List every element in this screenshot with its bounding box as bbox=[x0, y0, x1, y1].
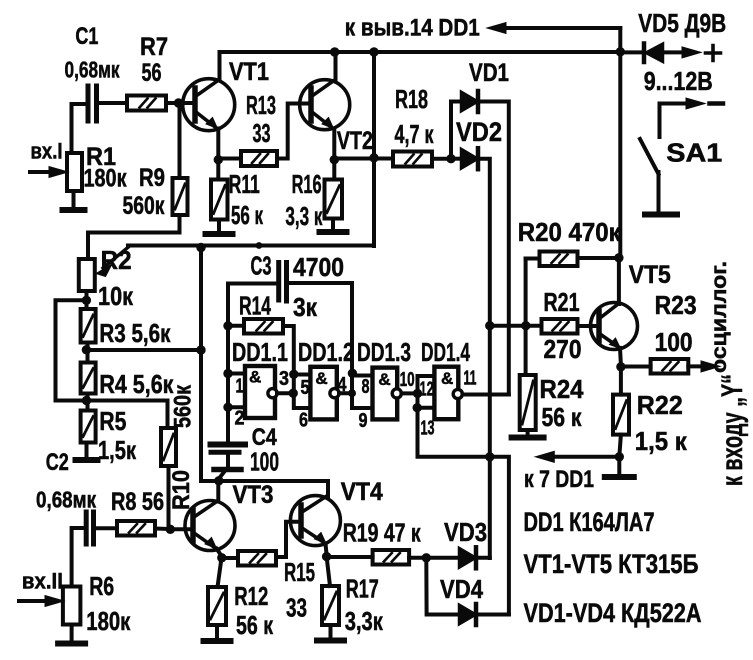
wire R21 to VT5 base bbox=[578, 324, 600, 328]
wire R7 to VT1 base bbox=[166, 101, 193, 105]
svg-text:VT2: VT2 bbox=[337, 127, 373, 155]
node R8/R10/base bbox=[166, 525, 175, 534]
wire collector link VT3-VT4 bbox=[219, 481, 328, 496]
wire R3-R4 bbox=[86, 343, 90, 363]
capacitor C3 bbox=[279, 263, 287, 302]
ground under R6 bbox=[70, 625, 74, 644]
wire VD4 cathode bbox=[476, 613, 509, 617]
wire R10 bottom bbox=[167, 466, 171, 529]
svg-text:9: 9 bbox=[359, 410, 368, 432]
resistor R6 bbox=[63, 587, 81, 625]
svg-text:R16: R16 bbox=[292, 169, 322, 199]
node R2-R3 junction bbox=[82, 296, 91, 305]
arrow к 7 DD1 bbox=[549, 455, 619, 459]
svg-text:4: 4 bbox=[338, 374, 348, 396]
wire rail down to R18 node bbox=[372, 52, 376, 246]
svg-text:VD1: VD1 bbox=[469, 59, 509, 87]
wire VT2 collector to rail bbox=[334, 52, 338, 79]
wire DD1.4 output pin11 to VD1 line bbox=[462, 393, 508, 397]
node VD2 anode bbox=[446, 154, 455, 163]
node x201 mid bbox=[196, 345, 205, 354]
wire pin13 stub bbox=[418, 406, 435, 410]
ground under R11 bbox=[217, 220, 221, 235]
svg-text:VT3: VT3 bbox=[233, 481, 274, 509]
svg-text:&: & bbox=[441, 369, 453, 388]
svg-text:R3 5,6к: R3 5,6к bbox=[99, 318, 171, 348]
svg-text:33: 33 bbox=[253, 118, 271, 148]
svg-text:R22: R22 bbox=[637, 390, 683, 420]
svg-text:R14: R14 bbox=[239, 291, 271, 321]
svg-text:R18: R18 bbox=[395, 84, 428, 114]
wire R15 to VT4 base bbox=[276, 522, 299, 557]
svg-text:VT5: VT5 bbox=[629, 261, 671, 289]
wire R14 right down bbox=[283, 326, 310, 408]
node VT1 emitter / R11 / R13 bbox=[214, 155, 223, 164]
svg-text:270: 270 bbox=[544, 334, 582, 364]
wire emitter to R17 bbox=[327, 557, 330, 586]
wire junction to R10 top bbox=[87, 401, 168, 429]
svg-text:R21: R21 bbox=[544, 287, 580, 317]
plus terminal bbox=[706, 46, 721, 61]
node DD1.1 pin2 bbox=[223, 403, 232, 412]
left bypass bracket bbox=[56, 300, 87, 400]
wire R18 to VD bracket bbox=[432, 157, 451, 161]
node R21/R24 bbox=[521, 321, 530, 330]
wire arrow corner to rail bbox=[618, 28, 622, 52]
wire node to R9 top bbox=[178, 103, 182, 178]
svg-text:10к: 10к bbox=[98, 281, 134, 311]
ground under R22 bbox=[617, 457, 621, 477]
logic gate DD1.2 bbox=[310, 367, 336, 420]
wire emitter to R12 bbox=[218, 558, 222, 587]
svg-text:R11: R11 bbox=[229, 169, 260, 199]
ground under R17 bbox=[329, 625, 333, 641]
resistor R23 bbox=[651, 359, 689, 374]
resistor R5 bbox=[81, 411, 96, 443]
node C3R fork top bbox=[348, 369, 357, 378]
resistor R7 bbox=[127, 96, 166, 111]
capacitor C4 bbox=[211, 442, 246, 448]
resistor R19 bbox=[373, 550, 410, 565]
node VD5 junction bbox=[616, 47, 625, 56]
wire junction to x201 bbox=[86, 348, 201, 352]
svg-text:R7: R7 bbox=[140, 33, 168, 61]
arrow к выв.14 DD1 bbox=[501, 26, 620, 30]
ground under R16 bbox=[331, 219, 335, 233]
wire C2 left to R6 bbox=[72, 528, 84, 587]
node R14 left bbox=[223, 321, 232, 330]
resistor R18 bbox=[393, 152, 432, 167]
wire R21 left long bbox=[490, 324, 542, 328]
resistor R3 bbox=[81, 309, 96, 343]
svg-text:56: 56 bbox=[142, 59, 162, 87]
input arrow вх.II bbox=[19, 599, 50, 603]
svg-text:&: & bbox=[378, 370, 390, 389]
resistor R4 bbox=[81, 363, 96, 394]
node pin5 junction bbox=[289, 370, 298, 379]
wire R8 to node bbox=[155, 527, 170, 532]
svg-text:DD1.3: DD1.3 bbox=[357, 337, 411, 367]
wire R13 to VT2 base bbox=[277, 104, 309, 159]
wire R4-R5 bbox=[86, 394, 90, 411]
svg-text:к входу „Y“: к входу „Y“ bbox=[716, 374, 749, 486]
resistor R16 bbox=[325, 180, 343, 219]
svg-text:5: 5 bbox=[301, 377, 310, 399]
resistor R21 bbox=[542, 319, 578, 334]
resistor R12 bbox=[208, 587, 226, 625]
svg-text:C3: C3 bbox=[251, 251, 272, 281]
logic gate DD1.4 bbox=[434, 367, 458, 420]
node rail x374 bbox=[369, 47, 378, 56]
svg-text:R17: R17 bbox=[346, 574, 379, 604]
wire VD2 cathode down bbox=[478, 159, 490, 558]
node R21/VD2line bbox=[485, 321, 494, 330]
svg-text:осциллог.: осциллог. bbox=[707, 261, 731, 373]
svg-text:R13: R13 bbox=[246, 90, 276, 120]
wire pin5 bbox=[294, 373, 311, 377]
node pin4 junction bbox=[348, 389, 356, 397]
svg-text:56 к: 56 к bbox=[236, 610, 274, 640]
svg-text:C1: C1 bbox=[75, 23, 98, 50]
node VD3 anode bbox=[422, 553, 431, 562]
svg-text:DD1.4: DD1.4 bbox=[421, 337, 470, 367]
wire to R14 bbox=[228, 324, 244, 328]
svg-text:R2: R2 bbox=[101, 245, 132, 275]
resistor R20 bbox=[540, 252, 578, 267]
node pin3 junction bbox=[289, 389, 298, 398]
svg-text:0,68мк: 0,68мк bbox=[65, 57, 120, 83]
wire VT1 emitter down bbox=[216, 129, 220, 158]
wire R20 left bbox=[526, 257, 540, 261]
resistor R17 bbox=[322, 586, 339, 625]
svg-text:R10: R10 bbox=[168, 470, 195, 510]
wire R20/R24 branch bbox=[524, 259, 528, 376]
wire VD2 anode bbox=[451, 157, 461, 161]
svg-text:0,68мк: 0,68мк bbox=[36, 487, 96, 513]
node VT2 emitter / R16 / R18 bbox=[330, 155, 339, 164]
supply rail right vertical bbox=[618, 52, 622, 258]
svg-text:1,5 к: 1,5 к bbox=[635, 426, 688, 456]
resistor R24 bbox=[520, 375, 536, 430]
svg-text:8: 8 bbox=[362, 376, 370, 398]
svg-text:VT1: VT1 bbox=[229, 58, 269, 86]
transistor VT5 bbox=[591, 303, 638, 350]
wire emitter to R23 bbox=[621, 365, 651, 369]
wire DD1.1 output bbox=[277, 391, 293, 395]
node pin13 junction bbox=[413, 403, 422, 412]
resistor R10 bbox=[161, 428, 176, 466]
svg-text:9...12В: 9...12В bbox=[644, 66, 713, 96]
wire emitter node to R16 bbox=[332, 160, 336, 180]
svg-text:R20 470к: R20 470к bbox=[518, 217, 622, 247]
resistor R9 bbox=[173, 178, 188, 215]
svg-text:к 7 DD1: к 7 DD1 bbox=[524, 466, 594, 493]
wire VT3 collector bbox=[216, 481, 220, 501]
diode VD2 bbox=[461, 149, 478, 169]
capacitor C1 bbox=[88, 86, 97, 121]
svg-text:&: & bbox=[315, 369, 327, 388]
node VD2 line crossing bbox=[485, 452, 494, 461]
svg-text:100: 100 bbox=[250, 447, 279, 477]
resistor R13 bbox=[241, 151, 277, 166]
resistor R2 variable bbox=[79, 259, 95, 291]
svg-text:13: 13 bbox=[421, 418, 435, 440]
svg-text:560к: 560к bbox=[170, 384, 197, 428]
wire VT5 collector bbox=[617, 258, 621, 304]
resistor R8 bbox=[117, 521, 155, 536]
node VT3 emitter bbox=[217, 553, 226, 562]
wire C1 to R7 bbox=[99, 101, 128, 105]
diode VD3 bbox=[459, 548, 476, 568]
wire emitter to R19 bbox=[327, 555, 373, 559]
svg-text:к выв.14 DD1: к выв.14 DD1 bbox=[345, 15, 480, 42]
wire VT1 collector to rail bbox=[218, 52, 222, 79]
wire R2 bottom bbox=[85, 291, 89, 309]
node R22 bottom bbox=[615, 452, 624, 461]
svg-text:R6: R6 bbox=[89, 571, 114, 601]
wire VD3 cathode up bbox=[476, 556, 490, 560]
svg-text:R9: R9 bbox=[139, 164, 165, 192]
switch SA1 bbox=[658, 104, 662, 138]
wire DD1.3 output bbox=[401, 391, 417, 395]
wire pin9 bbox=[352, 406, 373, 410]
wire C3 right bbox=[289, 283, 352, 408]
svg-text:R12: R12 bbox=[234, 581, 268, 611]
wire R20 right bbox=[578, 256, 621, 260]
wire emitter to R22 bbox=[619, 367, 623, 395]
svg-text:11: 11 bbox=[464, 368, 477, 390]
wire VT2 emitter to R18 bbox=[334, 157, 393, 161]
node on wiper wire bbox=[256, 242, 263, 249]
svg-text:DD1 К164ЛА7: DD1 К164ЛА7 bbox=[524, 507, 655, 537]
wire R9 bottom to rail bbox=[88, 215, 180, 259]
svg-text:56 к: 56 к bbox=[542, 402, 583, 432]
diode VD4 bbox=[459, 605, 476, 625]
svg-text:56 к: 56 к bbox=[231, 200, 264, 230]
svg-text:12: 12 bbox=[420, 379, 434, 401]
svg-text:VD2: VD2 bbox=[456, 117, 502, 147]
svg-text:VD4: VD4 bbox=[440, 574, 483, 604]
node VT5 emitter bbox=[616, 362, 625, 371]
wire x201 vertical bbox=[201, 248, 219, 482]
svg-text:VD1-VD4 КД522А: VD1-VD4 КД522А bbox=[524, 598, 702, 628]
wire C3 left bbox=[228, 284, 277, 442]
diode VD1 bbox=[461, 92, 478, 112]
wire node to R13 bbox=[218, 157, 241, 161]
wire R2 wiper line bbox=[128, 244, 374, 248]
svg-text:33: 33 bbox=[286, 593, 307, 623]
svg-text:VT4: VT4 bbox=[341, 478, 383, 506]
resistor R22 bbox=[613, 395, 629, 435]
node VT4 emitter bbox=[322, 552, 331, 561]
svg-text:R24: R24 bbox=[540, 374, 584, 404]
logic gate DD1.3 bbox=[373, 368, 398, 420]
svg-text:560к: 560к bbox=[123, 192, 165, 220]
transistor VT1 bbox=[183, 79, 235, 131]
svg-text:C2: C2 bbox=[46, 449, 69, 476]
diode VD5 pointing left bbox=[642, 44, 647, 63]
svg-text:вх.I: вх.I bbox=[31, 139, 63, 164]
transistor VT2 bbox=[300, 80, 350, 130]
node DD1.1 pin1 bbox=[223, 369, 232, 378]
wire pin8 bbox=[352, 374, 373, 378]
VD1 VD2 left bracket bbox=[451, 102, 461, 159]
resistor R14 bbox=[244, 319, 283, 334]
node x201 top bbox=[196, 243, 205, 252]
wire pin12 stub bbox=[418, 376, 435, 393]
svg-text:R19 47 к: R19 47 к bbox=[343, 518, 422, 548]
svg-text:100: 100 bbox=[655, 327, 693, 357]
wire VT5 emitter bbox=[618, 348, 623, 365]
wire pin2 bbox=[228, 405, 245, 409]
transistor VT3 bbox=[185, 501, 235, 551]
capacitor C2 bbox=[86, 512, 93, 544]
svg-text:вх.II: вх.II bbox=[22, 569, 63, 594]
arrow to minus supply bbox=[660, 102, 692, 106]
wire VD1 cathode right and down bbox=[478, 102, 509, 395]
wire base VT3 bbox=[170, 527, 193, 531]
svg-text:R23: R23 bbox=[655, 290, 697, 320]
svg-text:VD3: VD3 bbox=[444, 517, 487, 547]
node VT1 base / R9 bbox=[174, 98, 183, 107]
svg-text:4,7 к: 4,7 к bbox=[395, 119, 435, 149]
svg-text:3: 3 bbox=[279, 368, 289, 390]
svg-text:10: 10 bbox=[400, 369, 415, 391]
wire emitter node to R11 bbox=[216, 160, 220, 180]
svg-text:VD5 Д9В: VD5 Д9В bbox=[638, 8, 726, 38]
wire emitter to R15 bbox=[222, 556, 238, 560]
input arrow вх.I bbox=[30, 170, 54, 174]
svg-text:3,3к: 3,3к bbox=[345, 606, 384, 636]
svg-text:1: 1 bbox=[236, 376, 244, 398]
ground under R12 bbox=[215, 625, 219, 641]
wire R22 bottom bbox=[619, 435, 621, 457]
svg-text:R5: R5 bbox=[99, 406, 126, 436]
wire R19 to VD3 bbox=[409, 556, 459, 560]
logic gate DD1.1 bbox=[245, 366, 275, 418]
svg-text:DD1.1: DD1.1 bbox=[232, 337, 288, 367]
top supply rail bbox=[220, 50, 621, 54]
svg-text:6: 6 bbox=[299, 410, 308, 432]
svg-text:3,3 к: 3,3 к bbox=[285, 201, 323, 231]
transistor VT4 bbox=[290, 496, 340, 546]
ground under R1 bbox=[72, 191, 76, 210]
node R20 right bbox=[614, 253, 623, 262]
wire pin13 down to VD gates bbox=[418, 393, 509, 614]
node R4-R5 junction bbox=[82, 396, 91, 405]
wire pin1 bbox=[228, 372, 245, 376]
wire VD4 branch bbox=[426, 558, 459, 615]
wire VT2 emitter down bbox=[332, 129, 336, 158]
node VT3 collector / C4 bbox=[214, 476, 223, 485]
minus terminal bbox=[710, 101, 724, 106]
svg-text:SA1: SA1 bbox=[666, 137, 722, 167]
wire C1 left to R1 top bbox=[72, 104, 87, 153]
node VT2 collector on rail bbox=[330, 47, 339, 56]
wire VT3 emitter bbox=[217, 549, 222, 557]
svg-text:4700: 4700 bbox=[293, 252, 344, 282]
svg-text:R8 56: R8 56 bbox=[111, 488, 164, 516]
svg-text:R4 5,6к: R4 5,6к bbox=[99, 369, 174, 399]
svg-text:VT1-VT5 КТ315Б: VT1-VT5 КТ315Б bbox=[524, 549, 699, 579]
node R3-R4 junction bbox=[82, 345, 91, 354]
ground under R24 bbox=[526, 430, 530, 438]
arrow R23 output bbox=[688, 364, 706, 368]
svg-text:180к: 180к bbox=[86, 606, 131, 636]
resistor R1 bbox=[67, 153, 82, 191]
wire VT4 emitter bbox=[326, 544, 327, 556]
ground under SA1 bbox=[645, 212, 677, 218]
R2 wiper arrow bbox=[103, 246, 130, 268]
wire DD1.2 output bbox=[339, 391, 352, 395]
node R18 left / VT2 emitter wire bbox=[369, 153, 378, 162]
resistor R15 bbox=[238, 551, 276, 566]
svg-text:1,5к: 1,5к bbox=[98, 435, 137, 465]
svg-text:DD1.2: DD1.2 bbox=[298, 337, 354, 367]
wire C2 right to R8 bbox=[96, 526, 118, 530]
svg-text:R15: R15 bbox=[284, 557, 315, 587]
ground under R5 bbox=[85, 443, 89, 461]
svg-text:3к: 3к bbox=[293, 292, 318, 322]
svg-text:2: 2 bbox=[235, 408, 245, 430]
arrow to plus supply bbox=[663, 50, 687, 54]
svg-text:&: & bbox=[249, 368, 261, 387]
node pin12 junction bbox=[413, 389, 422, 398]
resistor R11 bbox=[211, 180, 228, 220]
svg-text:180к: 180к bbox=[84, 165, 127, 193]
